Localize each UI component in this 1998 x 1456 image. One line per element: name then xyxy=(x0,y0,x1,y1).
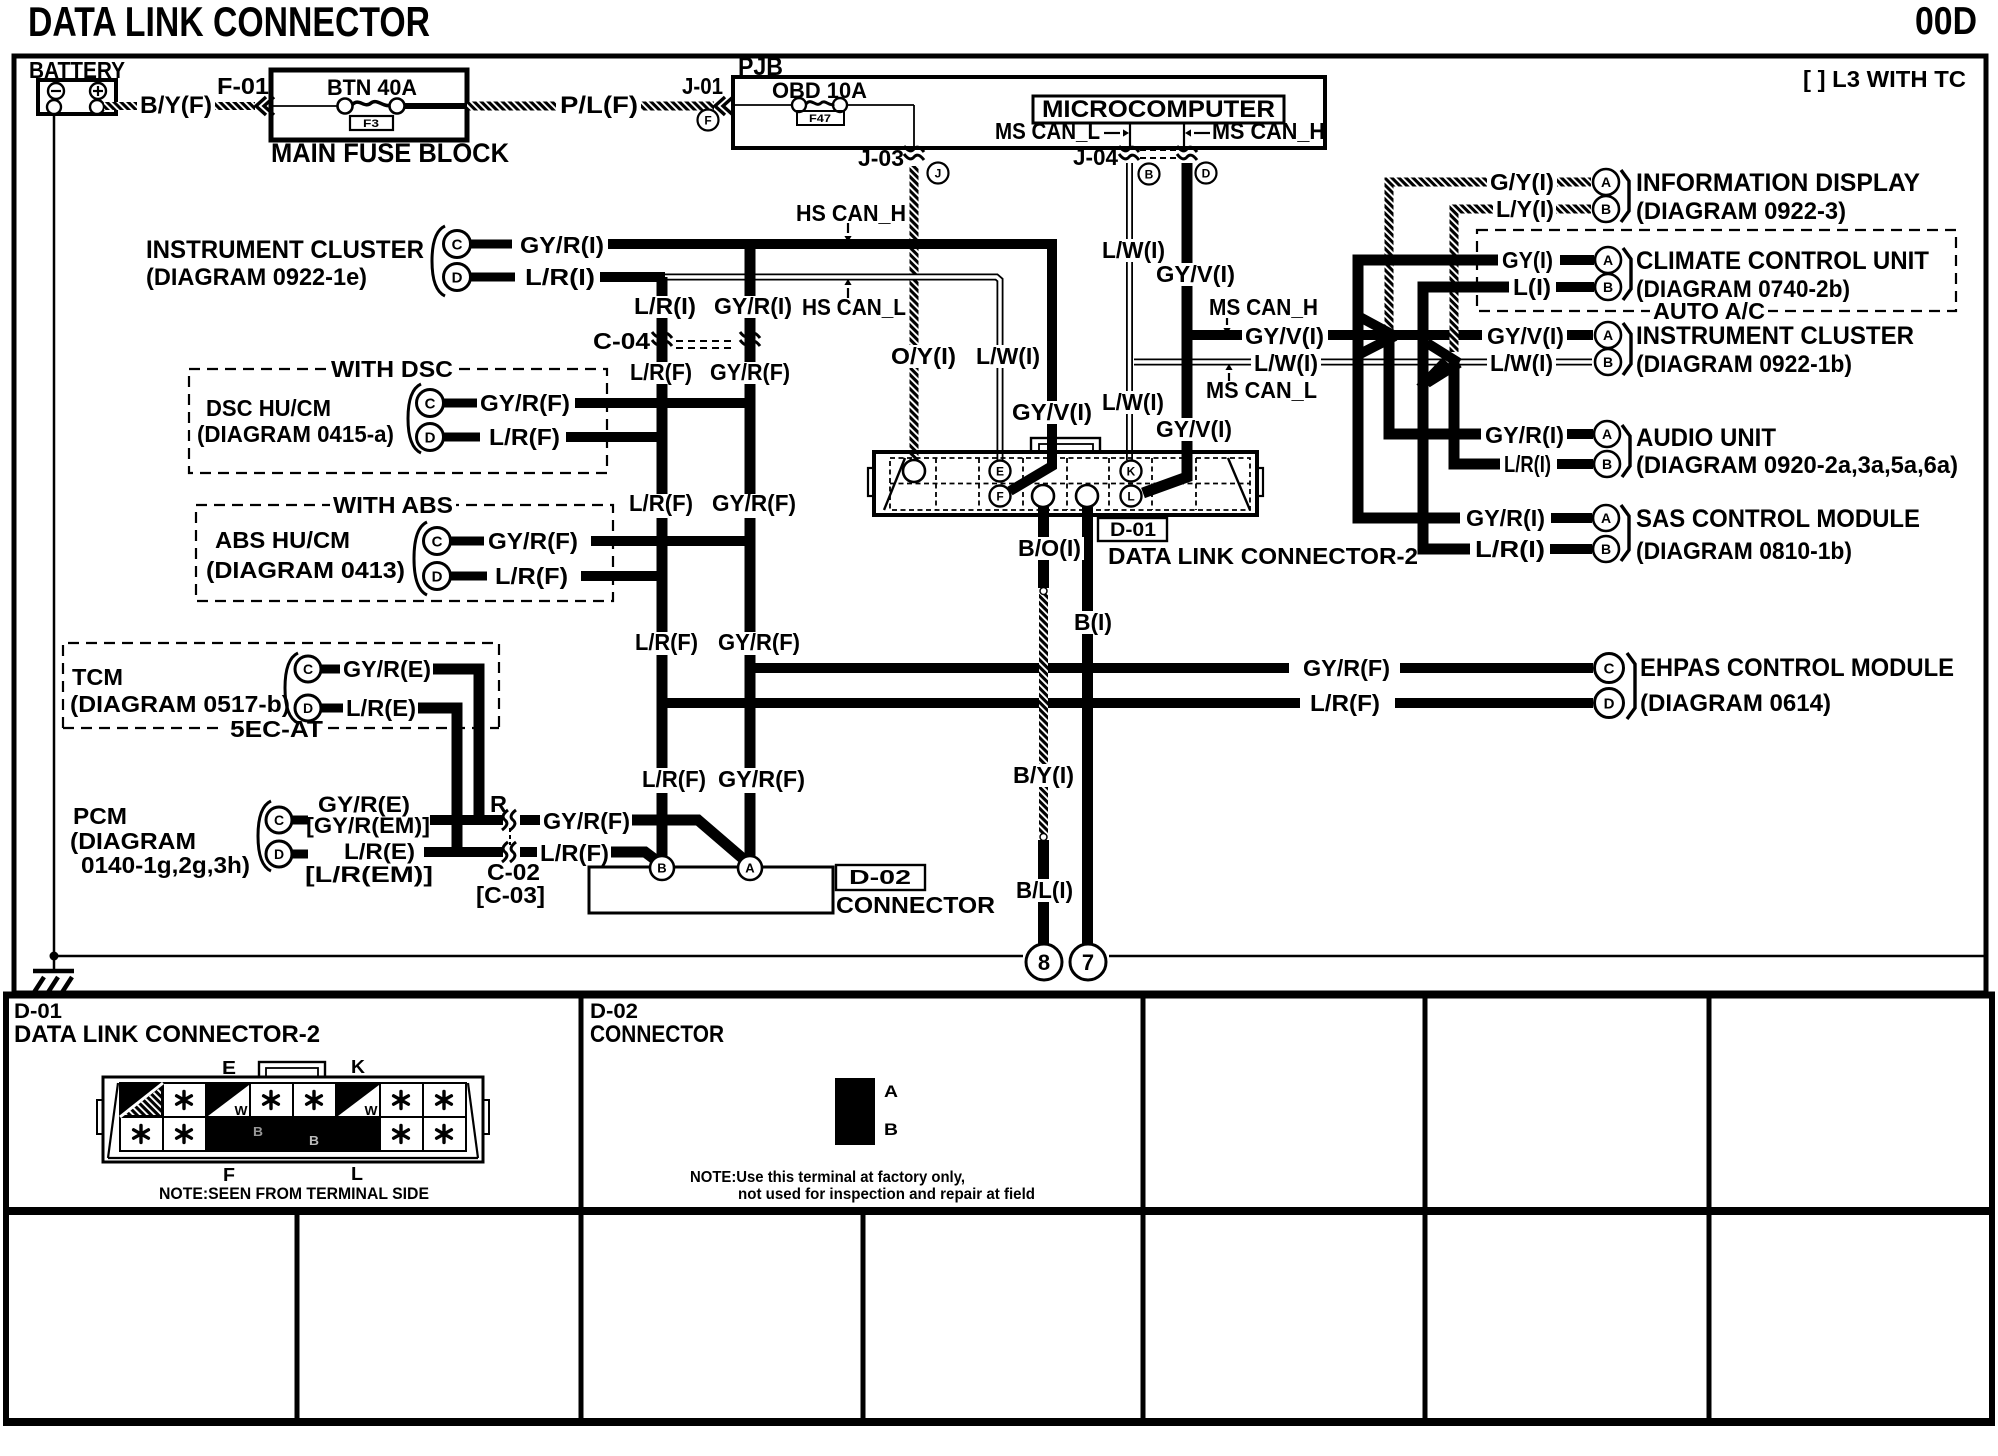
svg-text:(DIAGRAM 0810-1b): (DIAGRAM 0810-1b) xyxy=(1636,538,1852,565)
wire label B/L(I) xyxy=(1013,879,1076,902)
svg-text:C: C xyxy=(425,395,436,412)
pin E cell xyxy=(206,1083,250,1117)
svg-text:INSTRUMENT CLUSTER: INSTRUMENT CLUSTER xyxy=(1636,322,1914,350)
svg-text:L/W(I): L/W(I) xyxy=(1254,350,1318,376)
svg-text:0140-1g,2g,3h): 0140-1g,2g,3h) xyxy=(81,852,250,878)
svg-text:F-01: F-01 xyxy=(217,73,269,99)
wire L/R(E) PCM xyxy=(292,850,308,859)
connector D-02 label xyxy=(836,865,925,890)
svg-text:MS CAN_L: MS CAN_L xyxy=(995,118,1100,144)
wire GY/V(I) instrument cluster right xyxy=(1242,325,1327,348)
svg-text:PJB: PJB xyxy=(738,53,783,81)
wire GY(I) vertical V1 to SAS A xyxy=(1358,260,1498,518)
wire O/Y(I) from J-03 to DLC-2 xyxy=(910,166,919,460)
svg-text:L/R(F): L/R(F) xyxy=(495,563,568,589)
wire L/R(E) TCM xyxy=(321,704,343,713)
svg-text:L/W(I): L/W(I) xyxy=(1102,389,1164,415)
svg-text:PCM: PCM xyxy=(73,803,127,829)
wire GY/R(E) TCM xyxy=(321,665,340,674)
wire GY/R(F) to EHPAS terminal C xyxy=(750,663,1289,673)
svg-text:C: C xyxy=(452,236,463,253)
svg-text:C: C xyxy=(303,661,313,677)
wire L/R(F) to D-02 terminal B xyxy=(611,852,661,864)
terminal J of J-03 xyxy=(928,163,949,184)
svg-text:B: B xyxy=(253,1124,263,1139)
wire label O/Y(I) xyxy=(888,345,959,368)
wire OBD fuse to J-03 xyxy=(847,104,914,106)
svg-text:(DIAGRAM 0920-2a,3a,5a,6a): (DIAGRAM 0920-2a,3a,5a,6a) xyxy=(1636,452,1958,479)
svg-text:B/L(I): B/L(I) xyxy=(1016,877,1073,903)
svg-text:J-01: J-01 xyxy=(682,73,723,99)
svg-text:C-04: C-04 xyxy=(593,328,650,354)
wire GY/V(I) from HS CAN_H bus to terminal F xyxy=(608,244,1052,491)
svg-text:F47: F47 xyxy=(809,113,831,125)
wire GY/R(I) HS CAN_H bus xyxy=(471,240,512,249)
wire label L/W(I) upper xyxy=(1099,239,1168,262)
svg-text:F: F xyxy=(223,1165,235,1185)
terminal D of PCM xyxy=(266,841,292,867)
svg-text:D: D xyxy=(452,269,463,286)
terminal K of D-01 xyxy=(1121,461,1142,482)
svg-text:B: B xyxy=(657,861,666,876)
svg-text:B(I): B(I) xyxy=(1074,609,1112,635)
DSC HU/CM module box xyxy=(189,369,607,473)
svg-text:A: A xyxy=(884,1082,898,1101)
svg-text:B/Y(I): B/Y(I) xyxy=(1013,762,1074,788)
svg-text:L/R(F): L/R(F) xyxy=(629,490,693,516)
svg-text:GY/R(F): GY/R(F) xyxy=(480,390,570,416)
wire label GY/V(I) upper xyxy=(1153,263,1238,286)
svg-text:C: C xyxy=(1604,660,1615,677)
svg-text:F: F xyxy=(996,489,1003,503)
terminal D of TCM xyxy=(295,695,321,721)
svg-text:B: B xyxy=(309,1133,319,1148)
svg-text:D-02: D-02 xyxy=(849,867,911,889)
svg-text:GY/R(I): GY/R(I) xyxy=(1485,422,1564,448)
svg-text:B: B xyxy=(1603,279,1613,295)
svg-text:GY/R(F): GY/R(F) xyxy=(543,808,630,834)
ABS HU/CM module box xyxy=(196,505,613,601)
svg-text:L/R(F): L/R(F) xyxy=(630,359,692,385)
terminal C of DSC HU/CM xyxy=(417,390,444,417)
svg-text:GY/V(I): GY/V(I) xyxy=(1012,399,1092,425)
svg-text:DATA LINK CONNECTOR-2: DATA LINK CONNECTOR-2 xyxy=(1108,543,1418,569)
svg-text:F3: F3 xyxy=(363,118,379,130)
svg-text:GY/R(F): GY/R(F) xyxy=(710,359,790,385)
wire fuse to P/L(F) xyxy=(405,103,467,109)
svg-text:L/R(F): L/R(F) xyxy=(1310,690,1380,716)
svg-text:(DIAGRAM 0922-3): (DIAGRAM 0922-3) xyxy=(1636,198,1846,225)
wire G/Y(I) vertical gray xyxy=(1389,182,1487,330)
svg-text:G/Y(I): G/Y(I) xyxy=(1490,169,1554,195)
terminal D of EHPAS xyxy=(1595,689,1624,718)
terminal C of ABS HU/CM xyxy=(424,528,451,555)
svg-text:BTN 40A: BTN 40A xyxy=(327,75,417,100)
wire HS CAN_L thin double to terminal E xyxy=(665,277,1000,460)
wire label L/W(I) mid xyxy=(1099,391,1167,414)
svg-text:B: B xyxy=(1601,541,1611,557)
terminal D of DSC HU/CM xyxy=(417,424,444,451)
svg-text:[GY/R(EM)]: [GY/R(EM)] xyxy=(306,813,430,838)
svg-text:8: 8 xyxy=(1038,950,1050,975)
svg-text:GY/R(F): GY/R(F) xyxy=(488,528,578,554)
svg-text:B: B xyxy=(1145,167,1154,181)
svg-text:O/Y(I): O/Y(I) xyxy=(891,343,956,369)
svg-text:TCM: TCM xyxy=(72,664,123,690)
wire L/R(F) to EHPAS terminal D xyxy=(662,698,1300,708)
svg-text:P/L(F): P/L(F) xyxy=(560,92,638,119)
terminal A of D-02 xyxy=(738,856,762,880)
AUTO A/C label xyxy=(1650,300,1768,323)
svg-text:D: D xyxy=(274,846,284,862)
svg-text:(DIAGRAM 0922-1e): (DIAGRAM 0922-1e) xyxy=(146,264,367,291)
terminal A of instrument cluster right xyxy=(1595,322,1621,348)
terminal D of ABS HU/CM xyxy=(424,563,451,590)
svg-text:A: A xyxy=(1601,174,1611,190)
svg-text:L/R(F): L/R(F) xyxy=(540,840,609,866)
svg-text:E: E xyxy=(996,464,1004,478)
svg-text:MS CAN_L: MS CAN_L xyxy=(1206,377,1317,403)
svg-text:NOTE:SEEN FROM TERMINAL SIDE: NOTE:SEEN FROM TERMINAL SIDE xyxy=(159,1184,429,1203)
svg-text:ABS HU/CM: ABS HU/CM xyxy=(215,527,350,553)
svg-text:L/R(E): L/R(E) xyxy=(346,695,416,721)
wire inside fuse block xyxy=(271,105,338,107)
connector D-01 pin diagram xyxy=(103,1077,483,1162)
svg-text:WITH ABS: WITH ABS xyxy=(333,492,453,518)
wire GY/V(I) vertical from J-04 to terminal L xyxy=(1143,163,1187,493)
svg-text:D: D xyxy=(432,568,443,585)
svg-text:GY/R(F): GY/R(F) xyxy=(718,629,800,655)
svg-text:[ ] L3 WITH TC: [ ] L3 WITH TC xyxy=(1803,66,1966,92)
svg-text:B: B xyxy=(1601,201,1611,217)
svg-text:L/W(I): L/W(I) xyxy=(1490,350,1553,376)
svg-text:MS CAN_H: MS CAN_H xyxy=(1212,118,1325,144)
microcomputer CAN port box xyxy=(1130,123,1184,148)
svg-text:DSC HU/CM: DSC HU/CM xyxy=(206,395,331,421)
wire L/R(I) HS CAN_L xyxy=(471,273,515,282)
terminal A of climate control xyxy=(1595,247,1621,273)
ground wire from battery xyxy=(53,114,56,956)
terminal C of TCM xyxy=(295,656,321,682)
ground symbol xyxy=(53,956,56,971)
terminal F of D-01 xyxy=(990,486,1011,507)
svg-text:B/O(I): B/O(I) xyxy=(1018,535,1081,561)
wire label B/Y(I) xyxy=(1010,764,1077,787)
wire B(I) to B/L(I) to ground 7 xyxy=(1082,507,1093,945)
wire L/W(I) vertical from J-04 to terminal K xyxy=(1126,163,1133,460)
PJB box xyxy=(733,77,1325,148)
svg-text:GY/V(I): GY/V(I) xyxy=(1245,323,1324,349)
svg-text:(DIAGRAM 0614): (DIAGRAM 0614) xyxy=(1640,690,1831,717)
wire label GY/V(I) xyxy=(1009,401,1095,424)
svg-text:A: A xyxy=(1602,426,1612,442)
wire L(I) vertical V3 to SAS B xyxy=(1423,287,1509,549)
terminal B of audio unit xyxy=(1594,451,1620,477)
svg-text:HS CAN_H: HS CAN_H xyxy=(796,200,906,226)
svg-text:E: E xyxy=(222,1058,236,1078)
pin grid xyxy=(120,1083,466,1151)
terminal E of D-01 xyxy=(990,461,1011,482)
connector D-02 pin diagram xyxy=(835,1078,875,1145)
svg-text:GY/V(I): GY/V(I) xyxy=(1156,261,1235,287)
svg-text:OBD 10A: OBD 10A xyxy=(772,78,867,103)
svg-text:L: L xyxy=(1127,489,1134,503)
svg-text:L/R(E): L/R(E) xyxy=(344,839,415,864)
crossover diagonal at MS CAN_L xyxy=(1420,361,1446,388)
svg-text:DATA LINK CONNECTOR: DATA LINK CONNECTOR xyxy=(28,0,430,45)
wire L/Y(I) vertical gray xyxy=(1454,209,1493,352)
wire GY/R(F) DSC xyxy=(444,399,477,408)
terminal (unnamed) of D-01 xyxy=(903,460,925,482)
svg-text:J-03: J-03 xyxy=(858,145,904,171)
pin K cell xyxy=(336,1083,380,1117)
connector C-02 label xyxy=(509,828,511,845)
svg-text:B: B xyxy=(884,1120,898,1139)
terminal C of instrument cluster xyxy=(444,231,471,258)
svg-text:(DIAGRAM 0415-a): (DIAGRAM 0415-a) xyxy=(197,421,394,447)
climate control unit box xyxy=(1477,230,1956,311)
terminal B of instrument cluster right xyxy=(1595,349,1621,375)
svg-text:GY/R(F): GY/R(F) xyxy=(712,490,796,516)
wire label GY/V(I) mid xyxy=(1153,418,1235,441)
svg-text:B/Y(F): B/Y(F) xyxy=(140,92,212,119)
wire label B/O(I) xyxy=(1015,537,1084,560)
svg-text:L/Y(I): L/Y(I) xyxy=(1496,196,1554,222)
svg-text:F: F xyxy=(704,113,711,127)
svg-text:L/R(I): L/R(I) xyxy=(1504,451,1551,477)
svg-text:L/R(F): L/R(F) xyxy=(635,629,698,655)
svg-text:MAIN FUSE BLOCK: MAIN FUSE BLOCK xyxy=(271,138,509,168)
svg-text:A: A xyxy=(1603,252,1613,268)
svg-text:GY/V(I): GY/V(I) xyxy=(1156,416,1232,442)
svg-text:GY/R(I): GY/R(I) xyxy=(1466,505,1545,531)
svg-text:CONNECTOR: CONNECTOR xyxy=(836,892,995,918)
terminal F of J-01 xyxy=(698,110,719,131)
pin 1 shaded xyxy=(120,1083,163,1117)
svg-text:AUDIO UNIT: AUDIO UNIT xyxy=(1636,424,1776,452)
terminal A of audio unit xyxy=(1594,421,1620,447)
unused pins asterisks xyxy=(177,1092,192,1109)
svg-text:K: K xyxy=(1127,464,1136,478)
svg-text:(DIAGRAM 0922-1b): (DIAGRAM 0922-1b) xyxy=(1636,351,1852,378)
svg-text:[C-03]: [C-03] xyxy=(476,882,545,908)
terminal B of climate control xyxy=(1595,274,1621,300)
connector C-02 on L/R wire xyxy=(502,842,508,862)
wire L/W(I) MS CAN_L branch xyxy=(1134,359,1251,366)
svg-text:CONNECTOR: CONNECTOR xyxy=(590,1021,724,1048)
svg-text:D: D xyxy=(1202,166,1211,180)
wire label L/W(I) xyxy=(973,345,1043,368)
terminal D of instrument cluster xyxy=(444,264,471,291)
svg-text:INSTRUMENT CLUSTER: INSTRUMENT CLUSTER xyxy=(146,236,424,264)
wire L/R(F) DSC xyxy=(444,433,480,442)
svg-text:GY/V(I): GY/V(I) xyxy=(1487,323,1564,349)
terminal of D-01 to B/O(I) xyxy=(1032,485,1054,507)
connector D-02 xyxy=(589,867,833,913)
pins F and L black band xyxy=(206,1117,380,1151)
svg-text:L/W(I): L/W(I) xyxy=(976,343,1040,369)
svg-text:NOTE:Use this terminal at fact: NOTE:Use this terminal at factory only, xyxy=(690,1169,965,1186)
svg-text:D-01: D-01 xyxy=(1110,520,1156,541)
svg-text:L/R(F): L/R(F) xyxy=(489,424,560,450)
terminal C of PCM xyxy=(266,807,292,833)
svg-text:L/R(I): L/R(I) xyxy=(525,264,595,290)
svg-text:C: C xyxy=(274,812,284,828)
ground point 7 xyxy=(1070,944,1106,980)
svg-text:W: W xyxy=(235,1103,249,1118)
svg-text:WITH DSC: WITH DSC xyxy=(331,356,453,382)
main fuse block xyxy=(271,70,467,140)
svg-text:SAS CONTROL MODULE: SAS CONTROL MODULE xyxy=(1636,505,1920,533)
connector D-01 DATA LINK CONNECTOR-2 xyxy=(874,452,1257,515)
svg-text:D: D xyxy=(1604,695,1615,712)
wire B/O(I) to B/Y(I) to ground 8 xyxy=(1038,507,1049,588)
svg-text:GY/R(I): GY/R(I) xyxy=(714,293,792,319)
svg-text:GY/R(E): GY/R(E) xyxy=(343,656,431,682)
wire L/W(I) instrument cluster right xyxy=(1251,352,1321,375)
crossover diagonals at MS CAN_H xyxy=(1358,316,1395,355)
svg-text:INFORMATION DISPLAY: INFORMATION DISPLAY xyxy=(1636,169,1920,197)
svg-text:W: W xyxy=(365,1103,379,1118)
svg-text:C: C xyxy=(432,533,443,550)
wire label B(I) xyxy=(1071,611,1115,634)
terminal B of D-02 xyxy=(650,856,674,880)
terminal C of EHPAS xyxy=(1595,654,1624,683)
fuse BTN 40A F3 xyxy=(338,99,353,114)
svg-text:CLIMATE CONTROL UNIT: CLIMATE CONTROL UNIT xyxy=(1636,247,1929,275)
svg-text:B: B xyxy=(1603,354,1613,370)
svg-text:L/W(I): L/W(I) xyxy=(1102,237,1165,263)
wire GY/R(F) ABS xyxy=(451,537,484,546)
svg-text:HS CAN_L: HS CAN_L xyxy=(802,294,906,320)
svg-text:A: A xyxy=(1601,510,1611,526)
battery xyxy=(38,80,116,114)
terminal D of J-04 xyxy=(1196,163,1217,184)
svg-text:B: B xyxy=(1602,456,1612,472)
svg-text:[L/R(EM)]: [L/R(EM)] xyxy=(305,862,433,887)
bus GY/R vertical xyxy=(745,244,756,296)
svg-text:D-02: D-02 xyxy=(590,1000,638,1023)
svg-text:EHPAS CONTROL MODULE: EHPAS CONTROL MODULE xyxy=(1640,654,1954,682)
svg-text:GY/R(I): GY/R(I) xyxy=(520,232,604,258)
terminal A of information display xyxy=(1593,169,1619,195)
main diagram border frame xyxy=(14,56,1986,993)
ground bus line xyxy=(54,955,1023,958)
svg-text:L(I): L(I) xyxy=(1513,274,1551,300)
terminal B of information display xyxy=(1593,196,1619,222)
svg-text:J-04: J-04 xyxy=(1073,144,1118,170)
svg-text:J: J xyxy=(935,166,942,180)
svg-text:not used for inspection and re: not used for inspection and repair at fi… xyxy=(738,1186,1035,1203)
svg-text:D: D xyxy=(425,429,436,446)
svg-text:GY/R(F): GY/R(F) xyxy=(1303,655,1390,681)
svg-text:AUTO A/C: AUTO A/C xyxy=(1653,298,1765,324)
svg-text:A: A xyxy=(1603,327,1613,343)
wire GY/R(E) PCM xyxy=(292,816,308,825)
MS CAN_H input label xyxy=(1194,132,1210,134)
svg-text:7: 7 xyxy=(1082,950,1094,975)
svg-text:(DIAGRAM: (DIAGRAM xyxy=(70,828,196,854)
terminal of D-01 to B(I) xyxy=(1076,485,1098,507)
svg-text:D-01: D-01 xyxy=(14,1000,62,1023)
svg-text:L/R(F): L/R(F) xyxy=(642,766,706,792)
bus L/R vertical xyxy=(657,277,668,296)
svg-text:L: L xyxy=(351,1164,363,1184)
svg-text:A: A xyxy=(745,861,755,876)
wire L/R(I) vertical to audio B xyxy=(1454,360,1500,464)
microcomputer xyxy=(1033,96,1284,123)
connector D-01 label xyxy=(1098,518,1167,541)
terminal chart table xyxy=(3,993,1995,1426)
wire battery to F-01 B/Y(F) xyxy=(104,102,137,110)
ground point 8 xyxy=(1026,944,1062,980)
svg-text:K: K xyxy=(351,1057,365,1077)
svg-text:MS CAN_H: MS CAN_H xyxy=(1209,294,1318,320)
svg-text:GY/R(F): GY/R(F) xyxy=(718,766,805,792)
svg-text:L/R(I): L/R(I) xyxy=(1475,536,1545,562)
terminal B of J-04 xyxy=(1139,164,1160,185)
svg-text:D: D xyxy=(303,700,313,716)
wire inside PJB xyxy=(733,104,792,106)
terminal A of SAS control module xyxy=(1593,505,1619,531)
wire GY/R(I) vertical to audio A xyxy=(1389,336,1481,434)
svg-text:(DIAGRAM 0413): (DIAGRAM 0413) xyxy=(206,557,405,583)
svg-text:(DIAGRAM 0517-b): (DIAGRAM 0517-b) xyxy=(70,691,290,717)
svg-text:L/R(I): L/R(I) xyxy=(634,293,696,319)
terminal L of D-01 xyxy=(1121,486,1142,507)
terminal B of SAS control module xyxy=(1593,536,1619,562)
svg-text:00D: 00D xyxy=(1915,0,1977,43)
svg-text:DATA LINK CONNECTOR-2: DATA LINK CONNECTOR-2 xyxy=(14,1021,320,1048)
wire GY/V(I) MS CAN_H branch xyxy=(1187,330,1242,340)
wire L/R(F) ABS xyxy=(451,572,487,581)
TCM module box xyxy=(63,643,499,728)
wire GY/R(F) to D-02 terminal A xyxy=(632,820,748,863)
svg-text:GY(I): GY(I) xyxy=(1502,247,1553,273)
